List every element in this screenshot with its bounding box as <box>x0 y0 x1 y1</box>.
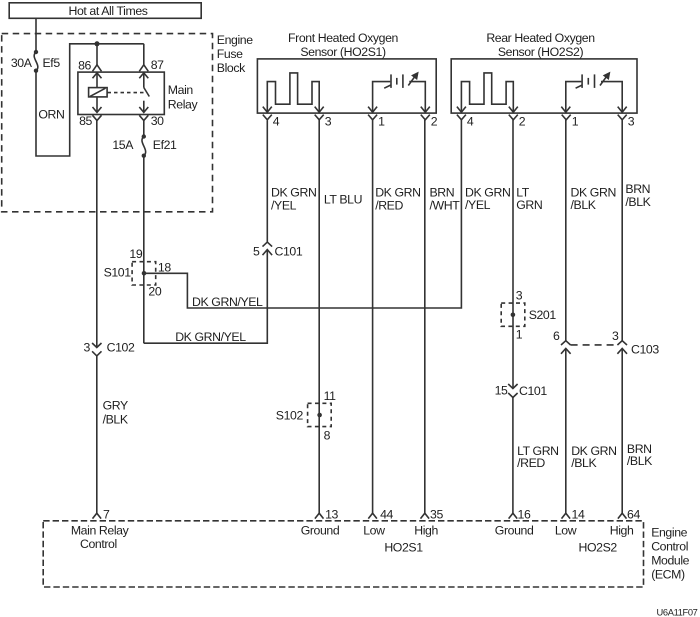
svg-text:3: 3 <box>516 289 523 303</box>
svg-text:Engine: Engine <box>651 525 687 539</box>
svg-text:14: 14 <box>572 508 585 522</box>
connector C101 pin 5 <box>263 242 273 247</box>
svg-text:3: 3 <box>612 329 619 343</box>
HO2S1 pin 4 <box>263 115 272 120</box>
svg-text:DK GRN/YEL: DK GRN/YEL <box>175 330 246 344</box>
svg-text:DK GRN/YEL: DK GRN/YEL <box>192 295 263 309</box>
svg-text:Front Heated Oxygen: Front Heated Oxygen <box>288 31 399 45</box>
node junction dot on bus <box>95 41 100 46</box>
splice S102 dashed box <box>308 403 332 426</box>
HO2S2 sensor cell <box>566 82 582 113</box>
svg-text:DK GRN: DK GRN <box>465 185 510 199</box>
svg-text:3: 3 <box>325 114 332 128</box>
wire DK GRN/BLK to ECM pin 14 <box>565 348 567 513</box>
wire from Hot bus to fuse Ef5 <box>35 18 37 53</box>
svg-text:Control: Control <box>651 539 688 553</box>
wire HO2S1 pin2 down <box>424 120 426 514</box>
relay switch contact <box>139 73 148 78</box>
svg-text:Module: Module <box>651 553 689 567</box>
svg-text:11: 11 <box>324 389 337 403</box>
relay coil K1 <box>93 73 102 78</box>
wire from Ef21 to S101 <box>143 156 145 343</box>
relay coil-switch dashed link <box>108 92 146 94</box>
svg-text:Ground: Ground <box>495 524 534 538</box>
connector C103 pin 6 <box>561 341 571 345</box>
svg-text:HO2S1: HO2S1 <box>384 541 423 555</box>
svg-text:HO2S2: HO2S2 <box>579 541 618 555</box>
wire LT GRN/RED to ECM pin 16 <box>512 398 514 514</box>
svg-text:BRN: BRN <box>625 182 650 196</box>
connector C101 pin 15 <box>508 384 517 389</box>
svg-text:Sensor (HO2S1): Sensor (HO2S1) <box>300 45 386 59</box>
svg-text:C103: C103 <box>631 342 659 356</box>
svg-text:19: 19 <box>129 247 142 261</box>
svg-text:16: 16 <box>518 508 531 522</box>
svg-text:3: 3 <box>628 114 635 128</box>
sensor box HO2S1 <box>257 59 436 113</box>
svg-text:Control: Control <box>80 537 117 551</box>
svg-text:8: 8 <box>324 428 331 442</box>
svg-text:7: 7 <box>103 508 110 522</box>
svg-text:Engine: Engine <box>217 33 253 47</box>
HO2S1 pin 2 <box>421 115 430 120</box>
dashed box Engine Control Module ECM <box>43 521 643 587</box>
wire relay pin 87 <box>143 44 145 65</box>
wire S101 branch to HO2S2 pin4 <box>144 120 461 308</box>
svg-text:/BLK: /BLK <box>103 412 129 426</box>
svg-text:15: 15 <box>495 384 508 398</box>
svg-text:Hot at All Times: Hot at All Times <box>68 4 147 18</box>
relay U Main Relay box <box>78 72 164 114</box>
svg-text:High: High <box>414 524 438 538</box>
svg-text:/RED: /RED <box>517 456 545 470</box>
HO2S2 pin 3 <box>618 115 627 120</box>
svg-text:4: 4 <box>467 114 474 128</box>
fuse Ef21 15A <box>142 134 146 138</box>
dashed box Engine Fuse Block <box>2 34 213 212</box>
svg-text:C102: C102 <box>107 340 135 354</box>
wire relay pin 86 <box>96 44 98 65</box>
svg-text:3: 3 <box>84 340 91 354</box>
svg-text:DK GRN: DK GRN <box>571 185 616 199</box>
wire HO2S2 pin2 down <box>512 120 514 389</box>
svg-text:/YEL: /YEL <box>271 199 297 213</box>
svg-text:/BLK: /BLK <box>627 454 653 468</box>
svg-text:GRY: GRY <box>103 399 128 413</box>
svg-text:1: 1 <box>516 327 523 341</box>
svg-text:Ground: Ground <box>301 524 340 538</box>
HO2S1 pin 1 <box>368 115 377 120</box>
svg-text:20: 20 <box>148 285 161 299</box>
svg-text:Low: Low <box>555 524 577 538</box>
svg-text:86: 86 <box>78 58 91 72</box>
svg-text:Fuse: Fuse <box>217 47 243 61</box>
wire relay pin 85 down <box>93 115 102 120</box>
wire GRY/BLK to ECM pin 7 <box>96 356 98 514</box>
svg-text:BRN: BRN <box>430 185 455 199</box>
svg-text:85: 85 <box>79 114 92 128</box>
svg-text:/BLK: /BLK <box>571 456 597 470</box>
splice S101 dashed box <box>132 262 156 285</box>
svg-text:Main Relay: Main Relay <box>71 524 130 538</box>
svg-text:S201: S201 <box>529 308 557 322</box>
HO2S1 pin 3 <box>315 115 324 120</box>
svg-text:GRN: GRN <box>516 198 542 212</box>
svg-text:18: 18 <box>158 260 171 274</box>
wire relay pin 30 down <box>139 115 148 120</box>
svg-text:/RED: /RED <box>375 199 403 213</box>
svg-text:/BLK: /BLK <box>571 198 597 212</box>
svg-text:5: 5 <box>253 244 260 258</box>
svg-text:Sensor (HO2S2): Sensor (HO2S2) <box>498 45 584 59</box>
svg-text:15A: 15A <box>112 138 134 152</box>
svg-text:Block: Block <box>217 61 246 75</box>
svg-text:C101: C101 <box>519 384 547 398</box>
svg-text:44: 44 <box>380 508 393 522</box>
wire ORN from fuse to relay bus <box>36 44 144 156</box>
svg-text:87: 87 <box>151 58 164 72</box>
HO2S1 heater element <box>267 73 319 112</box>
connector C103 pin 3 <box>617 341 627 345</box>
svg-text:35: 35 <box>430 508 443 522</box>
splice S201 dashed box <box>501 303 525 326</box>
svg-text:30: 30 <box>151 114 164 128</box>
dashed link C103 <box>571 344 618 346</box>
svg-text:DK GRN: DK GRN <box>375 185 420 199</box>
svg-text:ORN: ORN <box>38 108 64 122</box>
svg-text:Ef5: Ef5 <box>43 56 61 70</box>
wire HO2S2 pin3 down to C103 <box>621 120 623 341</box>
connector C102 pin 3 <box>92 343 101 348</box>
fuse Ef5 30A <box>34 50 38 54</box>
svg-text:/WHT: /WHT <box>430 199 461 213</box>
svg-text:Rear Heated Oxygen: Rear Heated Oxygen <box>486 31 595 45</box>
sensor box HO2S2 <box>451 59 637 113</box>
svg-text:C101: C101 <box>275 244 303 258</box>
HO2S2 pin 4 <box>457 115 466 120</box>
svg-text:1: 1 <box>378 114 385 128</box>
svg-text:1: 1 <box>572 114 579 128</box>
HO2S2 heater element <box>461 73 513 112</box>
wire BRN/BLK to ECM pin 64 <box>621 348 623 513</box>
svg-text:LT BLU: LT BLU <box>324 193 362 207</box>
svg-text:Ef21: Ef21 <box>153 138 177 152</box>
svg-text:U6A11F07: U6A11F07 <box>657 608 698 617</box>
svg-text:DK GRN: DK GRN <box>271 185 316 199</box>
svg-text:LT: LT <box>516 185 530 199</box>
svg-text:/YEL: /YEL <box>465 198 491 212</box>
wire HO2S2 pin1 down to C103 <box>565 120 567 341</box>
wire S101 down then right to C101 pin5 <box>144 250 267 344</box>
wire HO2S1 pin1 down <box>372 120 374 514</box>
svg-text:Main: Main <box>168 83 194 97</box>
HO2S2 pin 2 <box>509 115 518 120</box>
svg-text:S102: S102 <box>276 408 304 422</box>
HO2S1 sensor cell <box>373 82 391 113</box>
svg-text:/BLK: /BLK <box>625 195 651 209</box>
svg-text:6: 6 <box>553 329 560 343</box>
node Hot at All Times box <box>9 3 201 18</box>
svg-text:High: High <box>610 524 634 538</box>
svg-text:Low: Low <box>363 524 385 538</box>
HO2S2 pin 1 <box>562 115 571 120</box>
wire HO2S1 pin3 LT BLU down <box>318 120 320 514</box>
svg-text:Relay: Relay <box>168 98 199 112</box>
svg-text:2: 2 <box>519 114 526 128</box>
svg-text:S101: S101 <box>104 265 132 279</box>
svg-text:13: 13 <box>325 508 338 522</box>
svg-text:(ECM): (ECM) <box>651 567 685 581</box>
svg-text:2: 2 <box>431 114 438 128</box>
svg-text:30A: 30A <box>11 56 33 70</box>
svg-text:4: 4 <box>273 114 280 128</box>
svg-text:64: 64 <box>627 508 640 522</box>
